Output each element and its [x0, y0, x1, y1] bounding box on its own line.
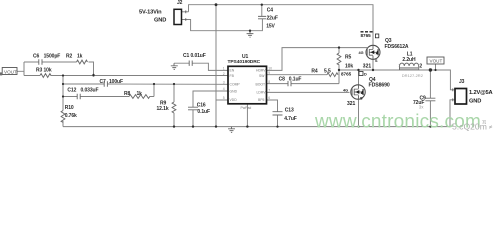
svg-text:100uF: 100uF — [109, 79, 123, 85]
svg-text:C6: C6 — [33, 53, 40, 59]
svg-text:0.76k: 0.76k — [65, 113, 77, 119]
svg-text:5: 5 — [223, 96, 225, 100]
svg-text:1: 1 — [398, 63, 400, 67]
svg-text:4G: 4G — [343, 89, 348, 93]
svg-text:4.7uF: 4.7uF — [284, 116, 297, 122]
svg-text:FDS6612A: FDS6612A — [385, 44, 409, 50]
svg-text:22uF: 22uF — [267, 15, 278, 21]
svg-text:C12: C12 — [67, 87, 76, 93]
svg-text:SW: SW — [259, 74, 265, 78]
svg-text:3x: 3x — [419, 105, 424, 110]
svg-text:12.1k: 12.1k — [157, 106, 169, 112]
svg-text:1k: 1k — [77, 53, 83, 59]
svg-text:1.2V@5A: 1.2V@5A — [469, 90, 493, 96]
svg-text:TPS40190DRC: TPS40190DRC — [228, 59, 261, 65]
svg-text:HDRV: HDRV — [256, 69, 266, 73]
svg-text:3: 3 — [223, 81, 225, 85]
svg-text:2.2uH: 2.2uH — [402, 57, 416, 63]
svg-text:0.033uF: 0.033uF — [81, 87, 99, 93]
svg-text:GND: GND — [469, 98, 481, 104]
svg-text:15V: 15V — [266, 24, 275, 30]
svg-text:7: 7 — [268, 89, 270, 93]
svg-text:R8: R8 — [124, 91, 131, 97]
svg-text:R3 10k: R3 10k — [36, 68, 52, 74]
svg-text:2: 2 — [223, 72, 225, 76]
svg-text:LDRV: LDRV — [257, 91, 267, 95]
svg-text:8765: 8765 — [341, 71, 352, 76]
svg-text:0.1uF: 0.1uF — [289, 77, 302, 83]
svg-text:321: 321 — [347, 101, 356, 107]
svg-text:FB: FB — [230, 74, 235, 78]
svg-text:C7: C7 — [100, 79, 107, 85]
svg-text:FDS8690: FDS8690 — [369, 83, 390, 89]
svg-text:C8: C8 — [279, 77, 286, 83]
svg-text:DR127-2R2: DR127-2R2 — [402, 73, 424, 78]
svg-text:C4: C4 — [267, 8, 274, 14]
svg-text:8765: 8765 — [361, 33, 372, 38]
svg-text:≠: ≠ — [489, 124, 493, 131]
svg-text:1: 1 — [223, 67, 225, 71]
svg-text:C16: C16 — [197, 103, 206, 109]
svg-text:J3: J3 — [459, 79, 465, 85]
svg-text:VOUT: VOUT — [430, 59, 443, 64]
svg-text:2: 2 — [419, 63, 422, 69]
svg-text:9: 9 — [268, 71, 270, 75]
svg-text:GND: GND — [154, 17, 166, 23]
svg-text:R5: R5 — [345, 55, 352, 61]
svg-text:8: 8 — [268, 80, 270, 84]
svg-text:5V-13Vin: 5V-13Vin — [139, 9, 162, 15]
svg-text:0.1uF: 0.1uF — [197, 109, 210, 115]
svg-text:10k: 10k — [345, 63, 353, 69]
svg-text:321: 321 — [363, 64, 372, 70]
svg-text:1k: 1k — [137, 91, 143, 97]
svg-text:D: D — [364, 72, 367, 76]
svg-text:BP5: BP5 — [258, 98, 265, 102]
svg-text:5.5: 5.5 — [324, 69, 331, 75]
svg-text:EN: EN — [230, 69, 235, 73]
svg-text:C13: C13 — [285, 108, 294, 114]
svg-text:C1 0.01uF: C1 0.01uF — [183, 53, 206, 59]
svg-text:R10: R10 — [65, 105, 74, 111]
svg-text:J2: J2 — [177, 0, 183, 6]
svg-text:BOOT: BOOT — [256, 83, 266, 87]
svg-text:R2: R2 — [66, 53, 73, 59]
svg-text:4: 4 — [223, 87, 225, 91]
svg-text:4G: 4G — [359, 51, 364, 55]
svg-text:PwPad: PwPad — [241, 106, 252, 110]
svg-text:10: 10 — [268, 67, 272, 71]
svg-text:6: 6 — [268, 96, 270, 100]
svg-text:GND: GND — [230, 89, 238, 93]
svg-text:S: S — [375, 59, 378, 63]
svg-text:1500pF: 1500pF — [44, 53, 61, 59]
svg-text:VOUT: VOUT — [4, 70, 17, 75]
svg-text:R4: R4 — [311, 69, 318, 75]
svg-text:COMP: COMP — [230, 83, 241, 87]
svg-text:π: π — [482, 119, 486, 126]
svg-text:VDD: VDD — [230, 98, 238, 102]
